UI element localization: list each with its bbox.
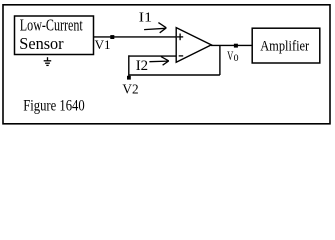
node V1 junction dot: [110, 35, 114, 39]
current arrow I2: [149, 57, 168, 66]
node Vo junction dot: [234, 44, 238, 48]
node V2 terminal dot: [127, 76, 131, 80]
sensor box U1 (Low-Current Sensor): [15, 16, 94, 55]
op-amp U2 triangle: [176, 28, 211, 63]
svg-text:o: o: [234, 49, 239, 64]
wire feedback bottom run: [129, 74, 220, 76]
svg-text:Sensor: Sensor: [19, 34, 64, 53]
wire op-amp output to amplifier box: [211, 44, 252, 46]
wire feedback vertical from output node: [219, 45, 221, 75]
current arrow I1: [144, 23, 166, 33]
svg-text:Amplifier: Amplifier: [260, 38, 309, 54]
svg-text:V1: V1: [95, 37, 111, 52]
border frame: [3, 5, 330, 124]
wire vertical to V2 terminal: [128, 55, 130, 78]
op-amp + pin marking: [177, 34, 183, 41]
svg-text:Low-Current: Low-Current: [20, 16, 83, 35]
wire sensor output to op-amp + input: [94, 36, 177, 38]
ground: [44, 57, 52, 65]
amplifier box U3: [252, 28, 320, 63]
wire op-amp - input: [129, 55, 176, 57]
svg-text:V2: V2: [122, 83, 138, 98]
op-amp - pin marking: [179, 55, 184, 57]
svg-text:I1: I1: [139, 11, 152, 26]
svg-text:Figure 1640: Figure 1640: [23, 98, 85, 115]
svg-text:I2: I2: [136, 58, 148, 74]
